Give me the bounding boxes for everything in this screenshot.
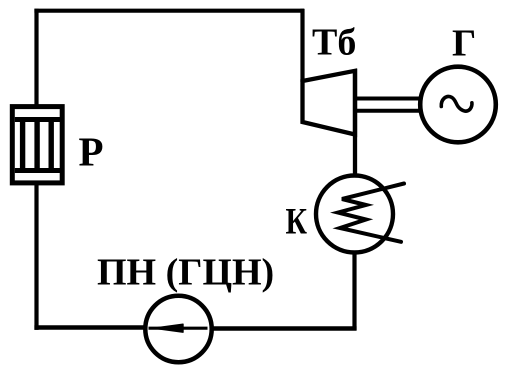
wire turbine inlet vertical	[300, 9, 304, 82]
wire top horizontal	[34, 9, 304, 13]
svg-text:Р: Р	[79, 129, 104, 175]
wire turbine to condenser	[353, 69, 357, 176]
label Г	[452, 22, 476, 64]
label Тб	[312, 22, 356, 64]
svg-text:Г: Г	[452, 22, 476, 64]
wire left vertical lower	[34, 183, 38, 330]
svg-text:Тб: Тб	[312, 22, 356, 64]
pump ПН (ГЦН)	[145, 296, 211, 362]
label К	[286, 202, 308, 243]
wire bottom horizontal left	[34, 325, 146, 329]
reactor Р	[12, 107, 62, 183]
svg-text:ПН (ГЦН): ПН (ГЦН)	[97, 252, 274, 294]
label Р	[79, 129, 104, 175]
svg-text:К: К	[286, 202, 308, 243]
wire left vertical upper	[34, 9, 38, 106]
condenser К	[316, 176, 404, 253]
shaft turbine to generator	[356, 99, 421, 111]
generator Г	[420, 67, 496, 143]
label ПН (ГЦН)	[97, 252, 274, 294]
turbine Тб	[303, 71, 356, 135]
wire bottom horizontal right	[212, 326, 357, 330]
wire condenser to bottom	[352, 252, 356, 330]
